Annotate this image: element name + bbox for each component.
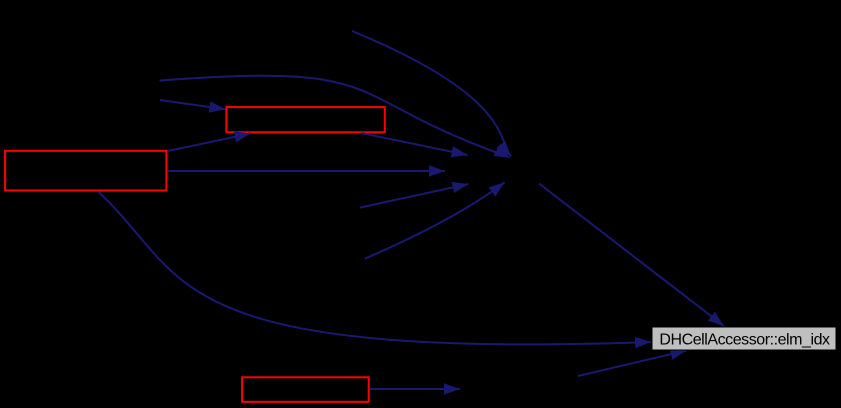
wire edge-g (lower-left hidden node to center hidden node) (365, 182, 505, 258)
wire edge-B-to-center (361, 133, 468, 155)
wire edge-e (box A to center hidden node) (168, 170, 445, 172)
wire edge-f (mid-left hidden node to center hidden node) (360, 184, 469, 208)
wire edge-a (top hidden node to center hidden node) (352, 31, 511, 157)
node box-C (red outlined node) (242, 377, 369, 402)
node box-A (red outlined node) (5, 151, 166, 191)
svg-text:DHCellAccessor::elm_idx: DHCellAccessor::elm_idx (659, 332, 830, 349)
node DHCellAccessor::elm_idx (grey current node) (652, 327, 836, 350)
wire edge-d (box A to box B) (168, 134, 251, 152)
wire edge-k (center hidden node to DHCellAccessor::elm_idx) (539, 184, 724, 327)
wire edge-b (upper-left hidden node to center hidden node) (160, 76, 511, 158)
node box-B (red outlined node) (226, 107, 384, 132)
wire edge-c (upper-left hidden node to box B) (160, 100, 225, 109)
wire edge-i (box C to bottom hidden node) (370, 388, 460, 390)
wire edge-j (bottom hidden node to DHCellAccessor::elm_idx) (578, 351, 687, 377)
wire edge-h (box A to DHCellAccessor::elm_idx) (99, 192, 652, 344)
